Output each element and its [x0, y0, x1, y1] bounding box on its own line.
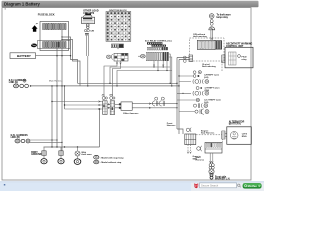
ps pump symbol: [209, 169, 214, 179]
svg-text:ACC RELAY CONTROL (Go): ACC RELAY CONTROL (Go): [145, 39, 172, 42]
relay strip C: [147, 47, 167, 50]
connector row G1 circles: [193, 71, 201, 78]
label G2: [205, 88, 221, 92]
alternator stub: [222, 131, 227, 139]
search icons: [238, 184, 241, 187]
search box: [200, 183, 237, 188]
alternator symbol: [230, 132, 238, 140]
wire theft to switch: [211, 30, 213, 40]
ps connector circles: [209, 161, 214, 169]
svg-text:theft warning: theft warning: [202, 65, 216, 68]
bottom blue bar: [0, 182, 264, 191]
label body ground: [31, 152, 42, 156]
relay strip A: [147, 42, 162, 44]
fuse row 1: [43, 24, 66, 30]
fusible link label lower: [11, 134, 29, 139]
svg-text:(LH): (LH): [204, 77, 209, 79]
FICD inner text: [242, 57, 248, 62]
ground ring 3: [74, 159, 81, 165]
svg-text:Harness: Harness: [167, 125, 176, 127]
blue bar dot: [4, 184, 6, 186]
svg-text:: Model with stop lamp: : Model with stop lamp: [100, 156, 124, 159]
junction block grid: [106, 12, 131, 42]
label JC tags: [102, 94, 113, 96]
svg-text:(BATTERY): (BATTERY): [229, 123, 241, 126]
dashed stub: [221, 61, 223, 72]
battery B1: [10, 53, 36, 59]
svg-text:FUSE BLOCK: FUSE BLOCK: [38, 12, 55, 16]
label main harness: [49, 80, 63, 83]
dashed wires below component: [187, 145, 191, 154]
svg-text:Sub Harness: Sub Harness: [201, 133, 215, 135]
ground drop 3: [75, 147, 80, 158]
C/B row: [84, 29, 94, 32]
svg-text:Harness: Harness: [196, 159, 205, 161]
connector black: [85, 13, 91, 15]
fuse block box: [38, 22, 71, 51]
wire vR1: [176, 58, 183, 135]
inline connector pair: [152, 97, 164, 106]
connector row G3 parens: [193, 103, 207, 108]
wire vR2: [178, 60, 179, 135]
alternator label: [229, 120, 245, 125]
label G3: [204, 100, 222, 104]
label effect harness: [123, 112, 139, 115]
label 3 wire: [202, 64, 216, 68]
ignition switch block: [197, 40, 222, 49]
connector stack: [209, 20, 215, 30]
connector row G2 parens: [193, 91, 209, 96]
ground ring 1: [41, 159, 47, 164]
mcafee button: [243, 183, 262, 188]
theft warning connector: [209, 14, 214, 19]
fusible link label upper: [9, 79, 27, 84]
wire drop v64: [64, 85, 65, 109]
legend text A: [100, 156, 124, 159]
accessory relay label: [145, 39, 172, 42]
label engine sub harness: [201, 130, 215, 134]
junction box: [115, 102, 133, 110]
svg-text:: Model without stop: : Model without stop: [100, 161, 122, 164]
svg-text:(M): (M): [110, 94, 113, 96]
svg-text:C/B: C/B: [90, 31, 94, 33]
connector oval left: [138, 54, 145, 58]
wire h1: [109, 66, 172, 86]
wire to ignition feed: [177, 58, 189, 60]
junction connector J/C 1: [102, 97, 107, 115]
svg-text:Diagram 1 Battery: Diagram 1 Battery: [4, 2, 41, 7]
svg-text:Effect harness: Effect harness: [123, 112, 139, 115]
wire from C/B down: [87, 35, 89, 86]
svg-text:MARKER L.H.: MARKER L.H.: [215, 178, 230, 181]
ground bus: [44, 108, 101, 147]
fuse row 2: [43, 42, 66, 48]
relay strip B: [152, 45, 167, 47]
mini junction table: [106, 53, 128, 61]
label other load circuits: [83, 10, 99, 15]
svg-text:(LH): (LH): [204, 102, 209, 104]
fusible link row lower: [15, 139, 30, 143]
wires grid to junction connectors: [104, 61, 121, 97]
label main harness 2: [196, 157, 205, 161]
FICD left stub: [222, 55, 225, 63]
junction connector J/C 2: [110, 97, 115, 115]
FICD inner connector: [229, 52, 241, 65]
FICD box: [225, 47, 253, 68]
wires into J/C left: [51, 101, 102, 110]
relay box U1: [82, 15, 95, 24]
legend text B: [100, 161, 122, 164]
ground drop 1: [42, 147, 46, 158]
svg-text:ENG: ENG: [242, 136, 247, 138]
circuit breaker circles: [87, 24, 90, 29]
connector icon lower: [31, 44, 37, 48]
label C/B w/o theft: [193, 33, 207, 38]
legend ring B: [94, 160, 99, 164]
stub wires right rows: [177, 75, 196, 111]
ground ring 2: [58, 159, 64, 164]
diagram frame: [2, 8, 251, 180]
toolbar backing: [191, 183, 264, 191]
svg-text:lamp relay: lamp relay: [217, 17, 229, 19]
title bar: [2, 1, 259, 7]
wire drop v52: [51, 85, 52, 147]
svg-text:J/C: J/C: [102, 94, 106, 96]
wires fusible lower: [30, 139, 63, 143]
alternator box: [227, 127, 252, 145]
FICD label: [226, 43, 252, 48]
wire fuse block bottom drops: [56, 30, 62, 151]
wires comb down: [153, 61, 167, 71]
label with theft: [81, 151, 92, 156]
legend ring A: [94, 155, 99, 159]
label goes to SMJ: [193, 155, 202, 160]
connector pair lower: [186, 128, 191, 132]
component box lower mid: [185, 134, 196, 145]
wires ps down: [210, 153, 213, 164]
svg-text:relay: relay: [242, 59, 248, 61]
wire bus A: [78, 82, 178, 84]
connector small: [85, 33, 89, 35]
connector row G2 circles: [196, 87, 202, 90]
ps component box: [205, 143, 222, 154]
dashed wire to alternator: [196, 134, 222, 136]
mcafee shield: [194, 183, 198, 188]
svg-text:Main Harness: Main Harness: [49, 80, 63, 83]
ground drop 2: [59, 147, 63, 158]
connector row G4: [195, 109, 209, 114]
connector on dashed left: [189, 55, 193, 62]
junction block label: [109, 10, 127, 12]
corner mark: [5, 8, 6, 9]
label G1: [204, 75, 220, 79]
comb connector C2: [146, 52, 168, 61]
ps connector left: [197, 146, 202, 151]
connector row G3 circle: [196, 98, 199, 101]
dashed link down: [222, 139, 224, 143]
fuse strip below grid: [112, 44, 124, 49]
theft warning label: [217, 13, 232, 18]
wire battery to node: [36, 55, 71, 57]
wire comb right loops: [169, 54, 173, 87]
connector row G1 parens: [193, 79, 209, 84]
wire bus B (battery feed): [31, 85, 179, 87]
arrow icon upper: [32, 23, 38, 31]
wires between J/C: [107, 104, 110, 109]
wires box right: [132, 103, 178, 109]
wire fuse block right taps: [61, 36, 80, 86]
alternator text: [242, 134, 248, 138]
connector circles left of switch: [183, 56, 186, 62]
ignition switch dashed box: [190, 38, 225, 61]
fuse block FB label: [38, 12, 55, 16]
svg-text:McAfee: McAfee: [248, 184, 258, 188]
svg-text:BATTERY: BATTERY: [17, 54, 31, 58]
svg-text:theft warn: theft warn: [81, 153, 92, 156]
fusible link row upper: [14, 84, 32, 88]
svg-text:Secure Search: Secure Search: [201, 184, 219, 188]
label front harness: [167, 122, 176, 127]
svg-text:GROUND: GROUND: [31, 154, 42, 156]
ps label: [215, 175, 230, 180]
